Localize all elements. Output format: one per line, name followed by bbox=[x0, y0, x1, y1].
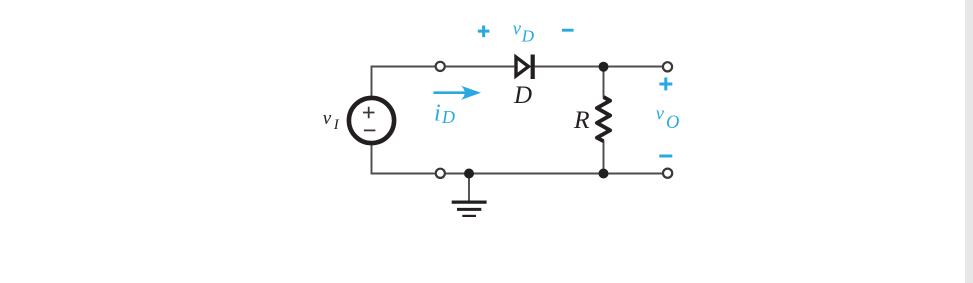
wire resistor top lead bbox=[603, 67, 605, 98]
voltage source vI circle bbox=[349, 98, 394, 143]
svg-text:O: O bbox=[666, 113, 679, 133]
cyan minus above diode bbox=[562, 29, 574, 32]
wire ground stem bbox=[468, 174, 470, 202]
wire from source top to top-left terminal bbox=[372, 67, 435, 98]
cyan plus at output bbox=[659, 78, 672, 91]
terminal top-left open circle bbox=[436, 62, 445, 71]
current arrow iD bbox=[434, 91, 469, 94]
cyan plus above diode bbox=[478, 26, 490, 38]
ground bar 3 bbox=[462, 215, 476, 217]
svg-text:D: D bbox=[441, 107, 455, 127]
svg-text:D: D bbox=[513, 82, 532, 109]
wire resistor bottom lead bbox=[603, 141, 605, 174]
terminal bottom-right open circle bbox=[663, 169, 672, 178]
minus sign inside source bbox=[364, 129, 376, 131]
diode D triangle bbox=[516, 57, 529, 76]
svg-text:I: I bbox=[333, 117, 340, 133]
svg-text:D: D bbox=[521, 26, 535, 45]
terminal bottom-left open circle bbox=[436, 169, 445, 178]
plus sign inside source bbox=[363, 107, 375, 118]
cyan minus at output bbox=[659, 155, 672, 158]
junction dot ground tap bbox=[464, 169, 474, 179]
junction dot bottom bbox=[599, 169, 609, 179]
junction dot top bbox=[599, 62, 609, 72]
svg-text:v: v bbox=[513, 19, 522, 39]
svg-text:i: i bbox=[434, 101, 441, 127]
resistor R zigzag bbox=[597, 97, 610, 141]
wire from diode cathode to top-right terminal bbox=[535, 66, 662, 68]
svg-text:v: v bbox=[656, 104, 665, 124]
terminal top-right open circle bbox=[663, 62, 672, 71]
wire from source bottom to bottom-left terminal bbox=[372, 145, 435, 174]
wire bottom rail from bottom-left terminal to bottom-right terminal bbox=[446, 173, 662, 175]
diode cathode bar bbox=[531, 55, 535, 80]
ground bar 2 bbox=[457, 208, 481, 211]
ground bar 1 bbox=[452, 201, 487, 204]
svg-text:v: v bbox=[323, 108, 332, 129]
wire from top-left terminal to diode anode bbox=[446, 66, 515, 68]
svg-text:R: R bbox=[573, 105, 590, 134]
